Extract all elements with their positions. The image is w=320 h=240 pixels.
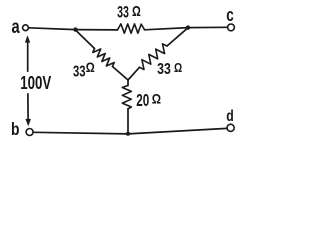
center node stub bbox=[127, 80, 129, 86]
svg-text:d: d bbox=[226, 108, 234, 125]
wire junction to c bbox=[188, 26, 228, 28]
svg-text:33: 33 bbox=[73, 63, 86, 80]
svg-text:20: 20 bbox=[136, 90, 149, 110]
voltage arrow down (toward b) bbox=[27, 94, 29, 119]
resistor 33ohm top (zigzag) bbox=[118, 24, 145, 33]
svg-text:Ω: Ω bbox=[174, 60, 182, 75]
svg-text:33: 33 bbox=[157, 61, 171, 78]
resistor 20ohm lead to bottom wire bbox=[127, 109, 129, 134]
resistor 33ohm left diagonal zigzag bbox=[93, 49, 114, 67]
svg-text:b: b bbox=[11, 119, 20, 139]
terminal a bbox=[23, 25, 29, 31]
wire a to top-left junction bbox=[29, 28, 76, 30]
resistor 33ohm left lead to center bbox=[113, 67, 129, 81]
resistor 20ohm vertical zigzag bbox=[122, 86, 131, 110]
terminal c bbox=[228, 24, 235, 31]
terminal b bbox=[26, 129, 33, 136]
bottom wire center to d bbox=[128, 128, 227, 134]
junction node on bottom wire bbox=[126, 132, 130, 136]
resistor 33ohm right diagonal zigzag bbox=[140, 44, 168, 70]
svg-text:Ω: Ω bbox=[132, 3, 141, 20]
svg-text:33: 33 bbox=[117, 3, 129, 22]
voltage arrow up (toward a) bbox=[27, 42, 29, 71]
resistor 33ohm right diagonal: lead from junction bbox=[167, 28, 188, 46]
svg-text:c: c bbox=[226, 4, 234, 25]
terminal d bbox=[227, 124, 234, 131]
bottom wire b to center junction bbox=[33, 132, 128, 134]
junction node on top wire left bbox=[73, 27, 77, 31]
svg-text:100V: 100V bbox=[20, 73, 51, 93]
wire junction to resistor top bbox=[76, 29, 118, 31]
svg-text:Ω: Ω bbox=[86, 60, 95, 75]
svg-text:a: a bbox=[12, 16, 20, 38]
resistor 33ohm left diagonal: lead from junction bbox=[76, 31, 95, 49]
wire resistor to top-right junction bbox=[145, 28, 188, 30]
resistor 33ohm right lead to center bbox=[128, 67, 140, 80]
svg-text:Ω: Ω bbox=[152, 90, 161, 106]
junction node on top wire right bbox=[186, 25, 190, 29]
